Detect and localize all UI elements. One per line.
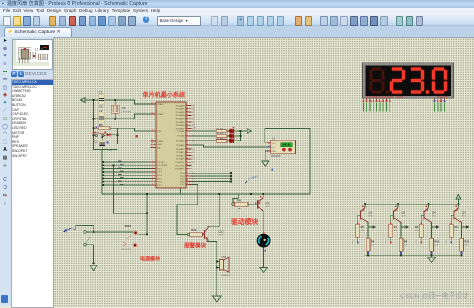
svg-text:P0.2/AD2: P0.2/AD2	[176, 111, 186, 114]
diode D1	[105, 132, 118, 137]
svg-text:X3: X3	[122, 106, 126, 110]
svg-text:R8: R8	[404, 239, 408, 243]
svg-text:LS1: LS1	[222, 255, 227, 259]
transistor Q21	[203, 226, 224, 242]
U1 right pin names	[175, 104, 185, 186]
wire RST to U1	[117, 128, 150, 131]
svg-text:P23: P23	[446, 240, 448, 243]
wire DQ net U1 to sensor	[192, 145, 268, 147]
transistor Q3 stage	[386, 203, 409, 256]
svg-text:Q1: Q1	[266, 201, 270, 205]
wire fan to ground	[263, 248, 265, 268]
wire Q1 collector to fan	[262, 211, 264, 234]
svg-text:P21: P21	[386, 240, 388, 243]
resistor R7a	[216, 138, 227, 142]
svg-text:Q3: Q3	[402, 210, 406, 214]
node led common mid	[240, 135, 242, 137]
wire C1 row	[85, 99, 101, 101]
svg-text:P2.5/A13: P2.5/A13	[176, 151, 185, 154]
svg-text:a: a	[194, 104, 195, 106]
node rail/C1	[92, 99, 94, 101]
svg-text:9012: 9012	[462, 215, 466, 217]
left icon column	[0, 37, 11, 306]
resistor R3 (reset)	[94, 124, 118, 130]
speaker LS1	[217, 255, 231, 277]
display digit 2	[390, 68, 405, 94]
svg-text:6: 6	[152, 177, 153, 179]
svg-text:1: 1	[152, 160, 153, 162]
svg-text:电源模块: 电源模块	[140, 256, 161, 263]
svg-text:P2.1/A9: P2.1/A9	[177, 135, 185, 138]
svg-text:4: 4	[152, 170, 153, 172]
svg-text:P0.1/AD1: P0.1/AD1	[176, 108, 186, 111]
ground (SW1)	[90, 265, 97, 270]
svg-text:19: 19	[151, 102, 153, 104]
node x147 SW3	[146, 233, 148, 235]
resistor R10 (alarm base)	[190, 228, 205, 237]
svg-text:SPEAKER: SPEAKER	[221, 274, 231, 277]
U1 right pin state squares	[186, 105, 187, 185]
svg-text:8.2k: 8.2k	[371, 244, 374, 246]
wire SW3 to vertical	[138, 233, 147, 235]
svg-text:27: 27	[192, 159, 194, 161]
svg-text:P0.3/AD3: P0.3/AD3	[176, 114, 186, 117]
wire driver bottom rail	[365, 254, 462, 256]
node C2/crystal junction	[114, 118, 116, 120]
resistor R1	[216, 128, 227, 132]
transistor Q1	[255, 196, 271, 211]
svg-text:d: d	[194, 114, 196, 116]
wire Q21 collector to rail	[208, 194, 219, 228]
wire drop reset cluster to gnd rail	[101, 149, 103, 194]
resistor R2	[216, 133, 227, 137]
wire C1 to XTAL1	[94, 100, 151, 104]
svg-text:R9: R9	[415, 225, 419, 229]
motor FAN	[257, 232, 271, 251]
svg-text:P2.2/A10: P2.2/A10	[176, 140, 185, 143]
LED D2	[229, 127, 241, 133]
svg-text:24: 24	[192, 149, 194, 151]
node bj junction	[93, 231, 95, 233]
wire main rail y194	[102, 193, 310, 195]
ground (left-pointing) at C1 net	[80, 98, 88, 103]
node P1.1 drop	[112, 164, 114, 166]
svg-text:dp: dp	[193, 127, 195, 129]
svg-text:18: 18	[151, 112, 153, 114]
power arrow (led rail)	[241, 129, 252, 134]
node led common top	[240, 130, 242, 132]
ground (speaker)	[212, 296, 221, 302]
svg-text:8: 8	[152, 184, 153, 186]
resistor R4	[235, 198, 255, 208]
svg-text:VCC: VCC	[272, 143, 277, 145]
U1 right pin numbers	[192, 105, 194, 183]
svg-text:R11: R11	[454, 225, 459, 229]
svg-text:P3.0/RXD: P3.0/RXD	[175, 162, 185, 164]
wire bj label to switch row	[73, 225, 94, 232]
svg-text:R7: R7	[394, 225, 398, 229]
svg-text:SW3: SW3	[125, 224, 132, 228]
svg-text:CRYSTAL: CRYSTAL	[121, 110, 132, 113]
node button rail	[92, 134, 94, 136]
capacitor C2	[98, 109, 104, 127]
switch SW1 terminal B	[84, 243, 87, 246]
sensor U2 DS18B20	[267, 137, 295, 157]
svg-text:Q21: Q21	[219, 229, 225, 233]
svg-text:XTAL2: XTAL2	[158, 113, 165, 116]
node B corner	[93, 262, 95, 264]
svg-text:7: 7	[152, 180, 153, 182]
svg-text:DS18B20: DS18B20	[271, 156, 282, 158]
svg-text:25: 25	[192, 152, 194, 154]
svg-text:R5: R5	[361, 225, 365, 229]
svg-text:P1.1/T2EX: P1.1/T2EX	[158, 165, 169, 167]
button (reset)	[93, 132, 106, 137]
node LS1 bottom	[216, 266, 218, 268]
svg-text:R2 300: R2 300	[217, 133, 225, 135]
display ghost digit 8.	[370, 68, 390, 94]
wire vertical x147	[146, 194, 148, 235]
svg-text:P0.5/AD5: P0.5/AD5	[176, 121, 186, 124]
svg-text:R1 300: R1 300	[217, 128, 225, 130]
op-amp U1 microcontroller AT89C52 body	[156, 102, 186, 188]
svg-text:9012: 9012	[432, 215, 436, 217]
svg-text:R12: R12	[464, 239, 469, 243]
capacitor C1	[98, 91, 104, 109]
svg-text:报警模块: 报警模块	[184, 241, 207, 249]
red state mark near EA pin	[136, 135, 138, 138]
capacitor C3 (electrolytic)	[94, 137, 113, 151]
node P1 bundle terminals	[102, 161, 104, 186]
transistor Q4 stage	[415, 203, 440, 256]
svg-text:8.2k: 8.2k	[434, 244, 437, 246]
wire Q1 emitter to rail	[262, 194, 264, 198]
node rail/C2	[92, 118, 94, 120]
svg-text:P3.1/TXD: P3.1/TXD	[176, 165, 185, 167]
node Q21 rail	[218, 193, 220, 195]
net label bj (arrow)	[64, 227, 73, 232]
svg-text:P2.0/A8: P2.0/A8	[177, 130, 185, 133]
node R4 feed	[250, 193, 252, 195]
svg-text:Q2: Q2	[369, 210, 373, 214]
svg-text:XTAL1: XTAL1	[158, 103, 165, 106]
wire digit driver rail y204	[365, 203, 459, 205]
svg-text:P0.4/AD4: P0.4/AD4	[176, 118, 186, 121]
svg-text:P2.3/A11: P2.3/A11	[176, 144, 185, 147]
svg-text:3: 3	[152, 167, 153, 169]
wire left rail x93.5	[93, 100, 95, 144]
display digit pins (right group)	[434, 98, 446, 111]
schematic canvas	[53, 37, 474, 307]
svg-text:P3.2/INT0: P3.2/INT0	[175, 169, 185, 171]
ground (driver rail)	[428, 255, 436, 262]
svg-text:P2.4/A12: P2.4/A12	[176, 148, 185, 151]
tab bar	[0, 26, 474, 38]
ground (sensor)	[262, 161, 269, 166]
crystal X3	[111, 100, 132, 119]
title bar	[0, 0, 474, 8]
switch SW1 lever	[86, 236, 91, 243]
svg-text:GND: GND	[272, 151, 277, 153]
svg-text:4.7k: 4.7k	[415, 230, 418, 232]
U1 P0 net labels	[193, 104, 195, 129]
svg-text:P22: P22	[416, 240, 418, 243]
node R4 left pin circle	[232, 203, 235, 206]
node LS1 top	[216, 260, 218, 262]
svg-text:Q5: Q5	[462, 210, 466, 214]
wire reset mid vertical	[116, 128, 118, 144]
wire R4 feed from rail	[233, 194, 238, 203]
wire P3 stubs to net dots	[192, 173, 232, 181]
display digit 0	[432, 68, 447, 94]
svg-text:9013: 9013	[219, 234, 224, 236]
node x147 rail	[146, 193, 148, 195]
svg-text:P1.0/T2: P1.0/T2	[158, 162, 166, 164]
svg-text:P2.6/A14: P2.6/A14	[176, 154, 185, 157]
display segment pins (left group)	[362, 98, 390, 111]
node R3 rail	[92, 127, 94, 129]
node sensor blue state	[271, 169, 273, 171]
wire U1 gnd drop	[179, 189, 181, 195]
svg-text:w 18b20: w 18b20	[248, 174, 259, 180]
watermark	[400, 290, 469, 300]
bundle wire labels	[118, 161, 124, 185]
switch SW1 terminal A	[84, 231, 87, 234]
svg-text:R6: R6	[371, 239, 375, 243]
svg-text:31: 31	[151, 146, 153, 148]
svg-text:29: 29	[151, 139, 153, 141]
LED D4	[229, 137, 241, 143]
svg-text:c: c	[194, 111, 195, 113]
svg-text:28: 28	[192, 162, 194, 164]
svg-text:P2.7/A15: P2.7/A15	[176, 158, 185, 161]
svg-text:2: 2	[152, 164, 153, 166]
svg-text:R7 300: R7 300	[217, 138, 225, 140]
svg-text:4.7k: 4.7k	[454, 230, 457, 232]
svg-text:8.2k: 8.2k	[404, 244, 407, 246]
svg-text:9012: 9012	[369, 215, 373, 217]
display DISP1 7SEG-MPX4 frame	[363, 63, 454, 99]
svg-text:9: 9	[152, 129, 153, 131]
node crystal top junction	[114, 99, 116, 101]
svg-text:4.7k: 4.7k	[361, 230, 364, 232]
wire sensor gnd	[265, 151, 267, 161]
wire B to ground	[86, 245, 93, 265]
svg-text:C2: C2	[99, 109, 103, 113]
node reset mid	[116, 134, 118, 136]
svg-text:驱动模块: 驱动模块	[231, 217, 258, 226]
wire Q21 emitter to speaker	[208, 239, 217, 296]
wire C2 row to XTAL2	[94, 114, 151, 119]
net label DQ	[244, 174, 259, 183]
node C3 top	[101, 137, 103, 139]
svg-text:单片机最小系统: 单片机最小系统	[143, 91, 186, 99]
svg-text:R10: R10	[434, 239, 439, 243]
svg-text:26: 26	[192, 155, 194, 157]
svg-text:22uF: 22uF	[108, 150, 114, 152]
node x147 P1 drop	[146, 212, 148, 214]
svg-text:bj: bj	[65, 227, 67, 231]
svg-text:8.2k: 8.2k	[464, 244, 467, 246]
svg-text:e: e	[194, 117, 195, 119]
svg-text:PSEN: PSEN	[158, 141, 164, 143]
svg-text:P20: P20	[353, 240, 355, 243]
LED D3	[229, 132, 241, 138]
wire bundle P1.0-P1.7	[103, 162, 150, 185]
toolbar	[0, 15, 474, 27]
svg-text:9012: 9012	[266, 206, 271, 208]
svg-text:P0.0/AD0: P0.0/AD0	[176, 104, 186, 107]
svg-text:5: 5	[152, 174, 153, 176]
node Q1 rail	[262, 193, 264, 195]
svg-text:9012: 9012	[402, 215, 406, 217]
svg-text:C3: C3	[94, 142, 98, 144]
node P3 wire ends	[230, 172, 232, 183]
wire P3.7 alarm drive	[177, 184, 198, 234]
svg-text:R4: R4	[238, 198, 242, 202]
svg-text:Q4: Q4	[432, 210, 436, 214]
svg-text:C1: C1	[99, 91, 103, 95]
svg-text:P0.6/AD6: P0.6/AD6	[176, 124, 186, 127]
wire U1 to led resistors	[192, 131, 230, 141]
svg-text:b: b	[194, 107, 195, 109]
U1 left pin names	[158, 103, 169, 187]
U1 left pin stubs	[151, 104, 157, 185]
wire A to SW3	[86, 231, 134, 233]
svg-text:g: g	[194, 124, 195, 126]
ground (fan)	[260, 268, 268, 273]
transistor Q2 stage	[353, 203, 376, 256]
wire left rail lower	[94, 144, 118, 149]
svg-text:R10: R10	[191, 228, 197, 232]
transistor Q5 stage	[446, 203, 470, 256]
svg-text:4.7k: 4.7k	[394, 230, 397, 232]
switch SW3	[121, 224, 138, 251]
svg-text:30: 30	[151, 143, 153, 145]
svg-text:SW-SPDT: SW-SPDT	[121, 249, 132, 251]
wire VCC to sensor	[265, 129, 310, 195]
display digit 3	[411, 68, 429, 94]
svg-text:ALE: ALE	[158, 143, 163, 146]
menu bar	[0, 8, 474, 15]
wire led common	[240, 131, 242, 141]
U1 left pin numbers	[151, 102, 153, 185]
U1 right pin stubs (24 rows)	[186, 106, 192, 185]
display frame pin labels	[366, 96, 449, 97]
left panel	[10, 37, 53, 306]
wire P1.1 drop to SW3 row	[114, 165, 148, 213]
power arrow (driver rail)	[456, 194, 461, 204]
